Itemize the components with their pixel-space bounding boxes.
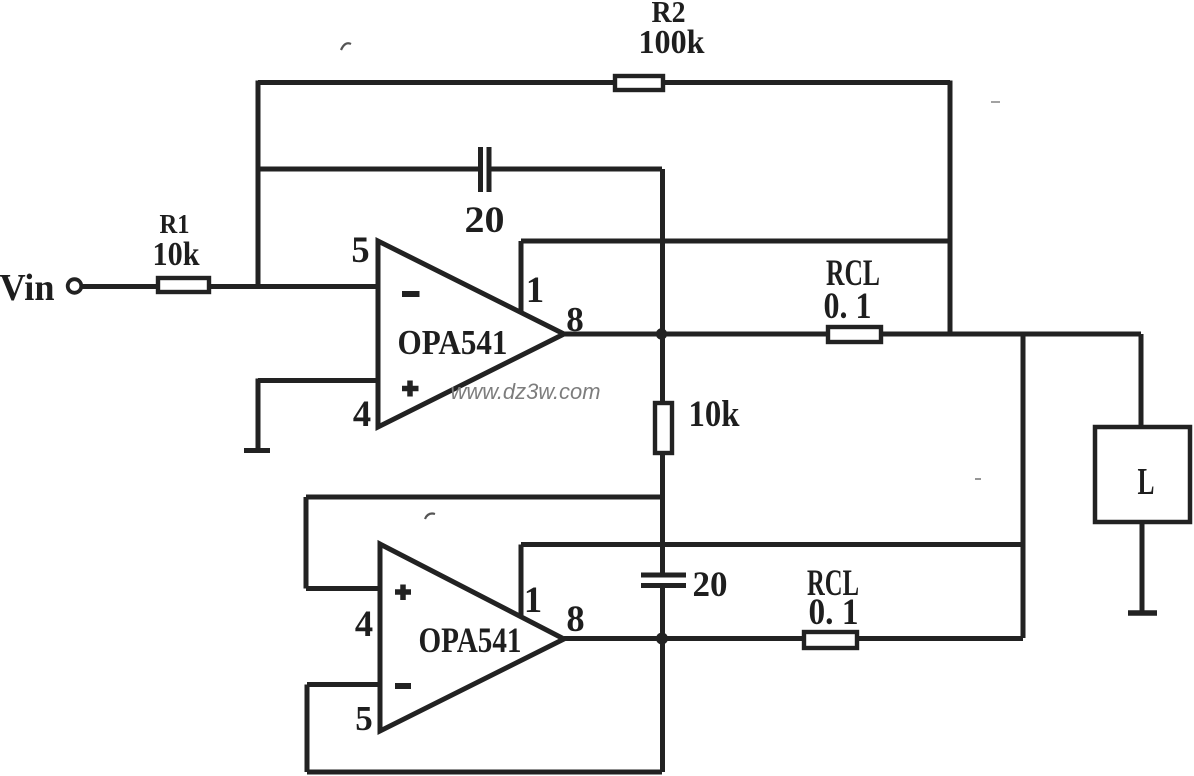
svg-text:20: 20 xyxy=(465,199,505,240)
svg-text:5: 5 xyxy=(351,229,369,270)
svg-text:R1: R1 xyxy=(160,208,190,239)
svg-text:OPA541: OPA541 xyxy=(398,323,508,362)
svg-text:20: 20 xyxy=(693,564,728,604)
svg-text:10k: 10k xyxy=(689,394,740,435)
svg-text:10k: 10k xyxy=(153,236,200,273)
svg-text:4: 4 xyxy=(355,603,373,644)
svg-text:1: 1 xyxy=(526,269,544,310)
svg-text:1: 1 xyxy=(524,579,542,620)
svg-text:L: L xyxy=(1138,461,1155,503)
svg-text:100k: 100k xyxy=(639,24,705,61)
svg-text:4: 4 xyxy=(353,393,371,434)
svg-text:8: 8 xyxy=(566,300,584,339)
svg-text:5: 5 xyxy=(355,699,373,738)
svg-text:Vin: Vin xyxy=(0,267,55,309)
svg-text:www.dz3w.com: www.dz3w.com xyxy=(451,379,601,404)
svg-text:8: 8 xyxy=(566,598,584,639)
svg-text:0. 1: 0. 1 xyxy=(809,592,859,633)
svg-text:OPA541: OPA541 xyxy=(419,620,522,660)
svg-text:0. 1: 0. 1 xyxy=(824,285,872,326)
